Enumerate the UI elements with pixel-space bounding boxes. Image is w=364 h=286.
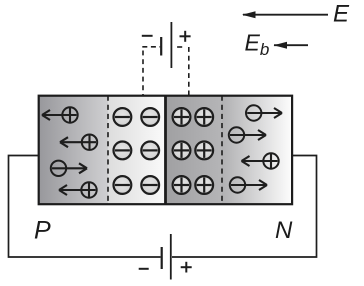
- wire right lead: [172, 156, 317, 258]
- hole h2 (P region row 2): [82, 135, 97, 150]
- wire arrow a2: [60, 137, 96, 147]
- battery V2 minus label: [142, 35, 153, 37]
- wire dashed right vertical (top battery): [188, 47, 190, 96]
- wire left lead: [9, 156, 161, 258]
- negative ion i3: [114, 142, 132, 160]
- hole h3 (P region row 4): [81, 182, 96, 197]
- wire arrow Eb (barrier field): [274, 42, 309, 49]
- battery V2 positive plate (top): [170, 22, 172, 68]
- wire arrow a8: [231, 180, 267, 190]
- svg-text:P: P: [34, 217, 51, 245]
- depletion layer right (positive ions) fill: [166, 96, 223, 205]
- positive ion j6: [195, 176, 213, 194]
- P region fill: [39, 96, 108, 205]
- battery V1 plus label: [181, 262, 192, 273]
- depletion layer left (negative ions) fill: [108, 96, 166, 205]
- battery V1 minus label: [139, 268, 149, 270]
- svg-text:E: E: [333, 1, 350, 28]
- battery V1 negative plate (bottom): [161, 247, 163, 269]
- svg-text:Eb: Eb: [245, 29, 270, 59]
- N region fill: [222, 96, 292, 205]
- electron e1 (P region row 3): [51, 161, 66, 176]
- negative ion i1: [114, 108, 132, 126]
- negative ion i6: [141, 176, 159, 194]
- positive ion j5: [173, 176, 191, 194]
- positive ion j3: [173, 142, 191, 160]
- battery V2 negative plate (top): [160, 37, 162, 56]
- svg-text:N: N: [275, 217, 293, 244]
- battery V1 positive plate (bottom): [170, 234, 172, 280]
- junction center line: [164, 96, 167, 205]
- hole h4 (N region row 3): [263, 153, 278, 168]
- negative ion i4: [141, 142, 159, 160]
- depletion boundary dashed line (N side): [221, 96, 223, 205]
- wire dashed right (top battery): [177, 46, 182, 48]
- electron e4 (N region row 4): [230, 177, 245, 192]
- wire arrow a4: [59, 185, 96, 195]
- negative ion i5: [114, 176, 132, 194]
- positive ion j1: [173, 108, 191, 126]
- depletion boundary dashed line (P side): [107, 96, 109, 205]
- wire dashed left (top battery): [142, 46, 160, 48]
- hole h1 (P region row 1): [62, 107, 77, 122]
- positive ion j2: [195, 108, 213, 126]
- wire arrow a3: [52, 163, 87, 173]
- battery V2 plus label: [180, 31, 191, 42]
- wire arrow a1: [42, 110, 77, 120]
- wire arrow a6: [230, 130, 266, 140]
- junction box outline: [39, 96, 292, 205]
- positive ion j4: [195, 142, 213, 160]
- electron e3 (N region row 2): [229, 127, 244, 142]
- wire arrow a7: [242, 156, 278, 166]
- negative ion i2: [141, 108, 159, 126]
- wire arrow a5: [247, 108, 282, 118]
- wire dashed left vertical (top battery): [142, 51, 144, 96]
- electron e2 (N region row 1): [246, 105, 261, 120]
- wire arrow E (applied field): [242, 11, 328, 18]
